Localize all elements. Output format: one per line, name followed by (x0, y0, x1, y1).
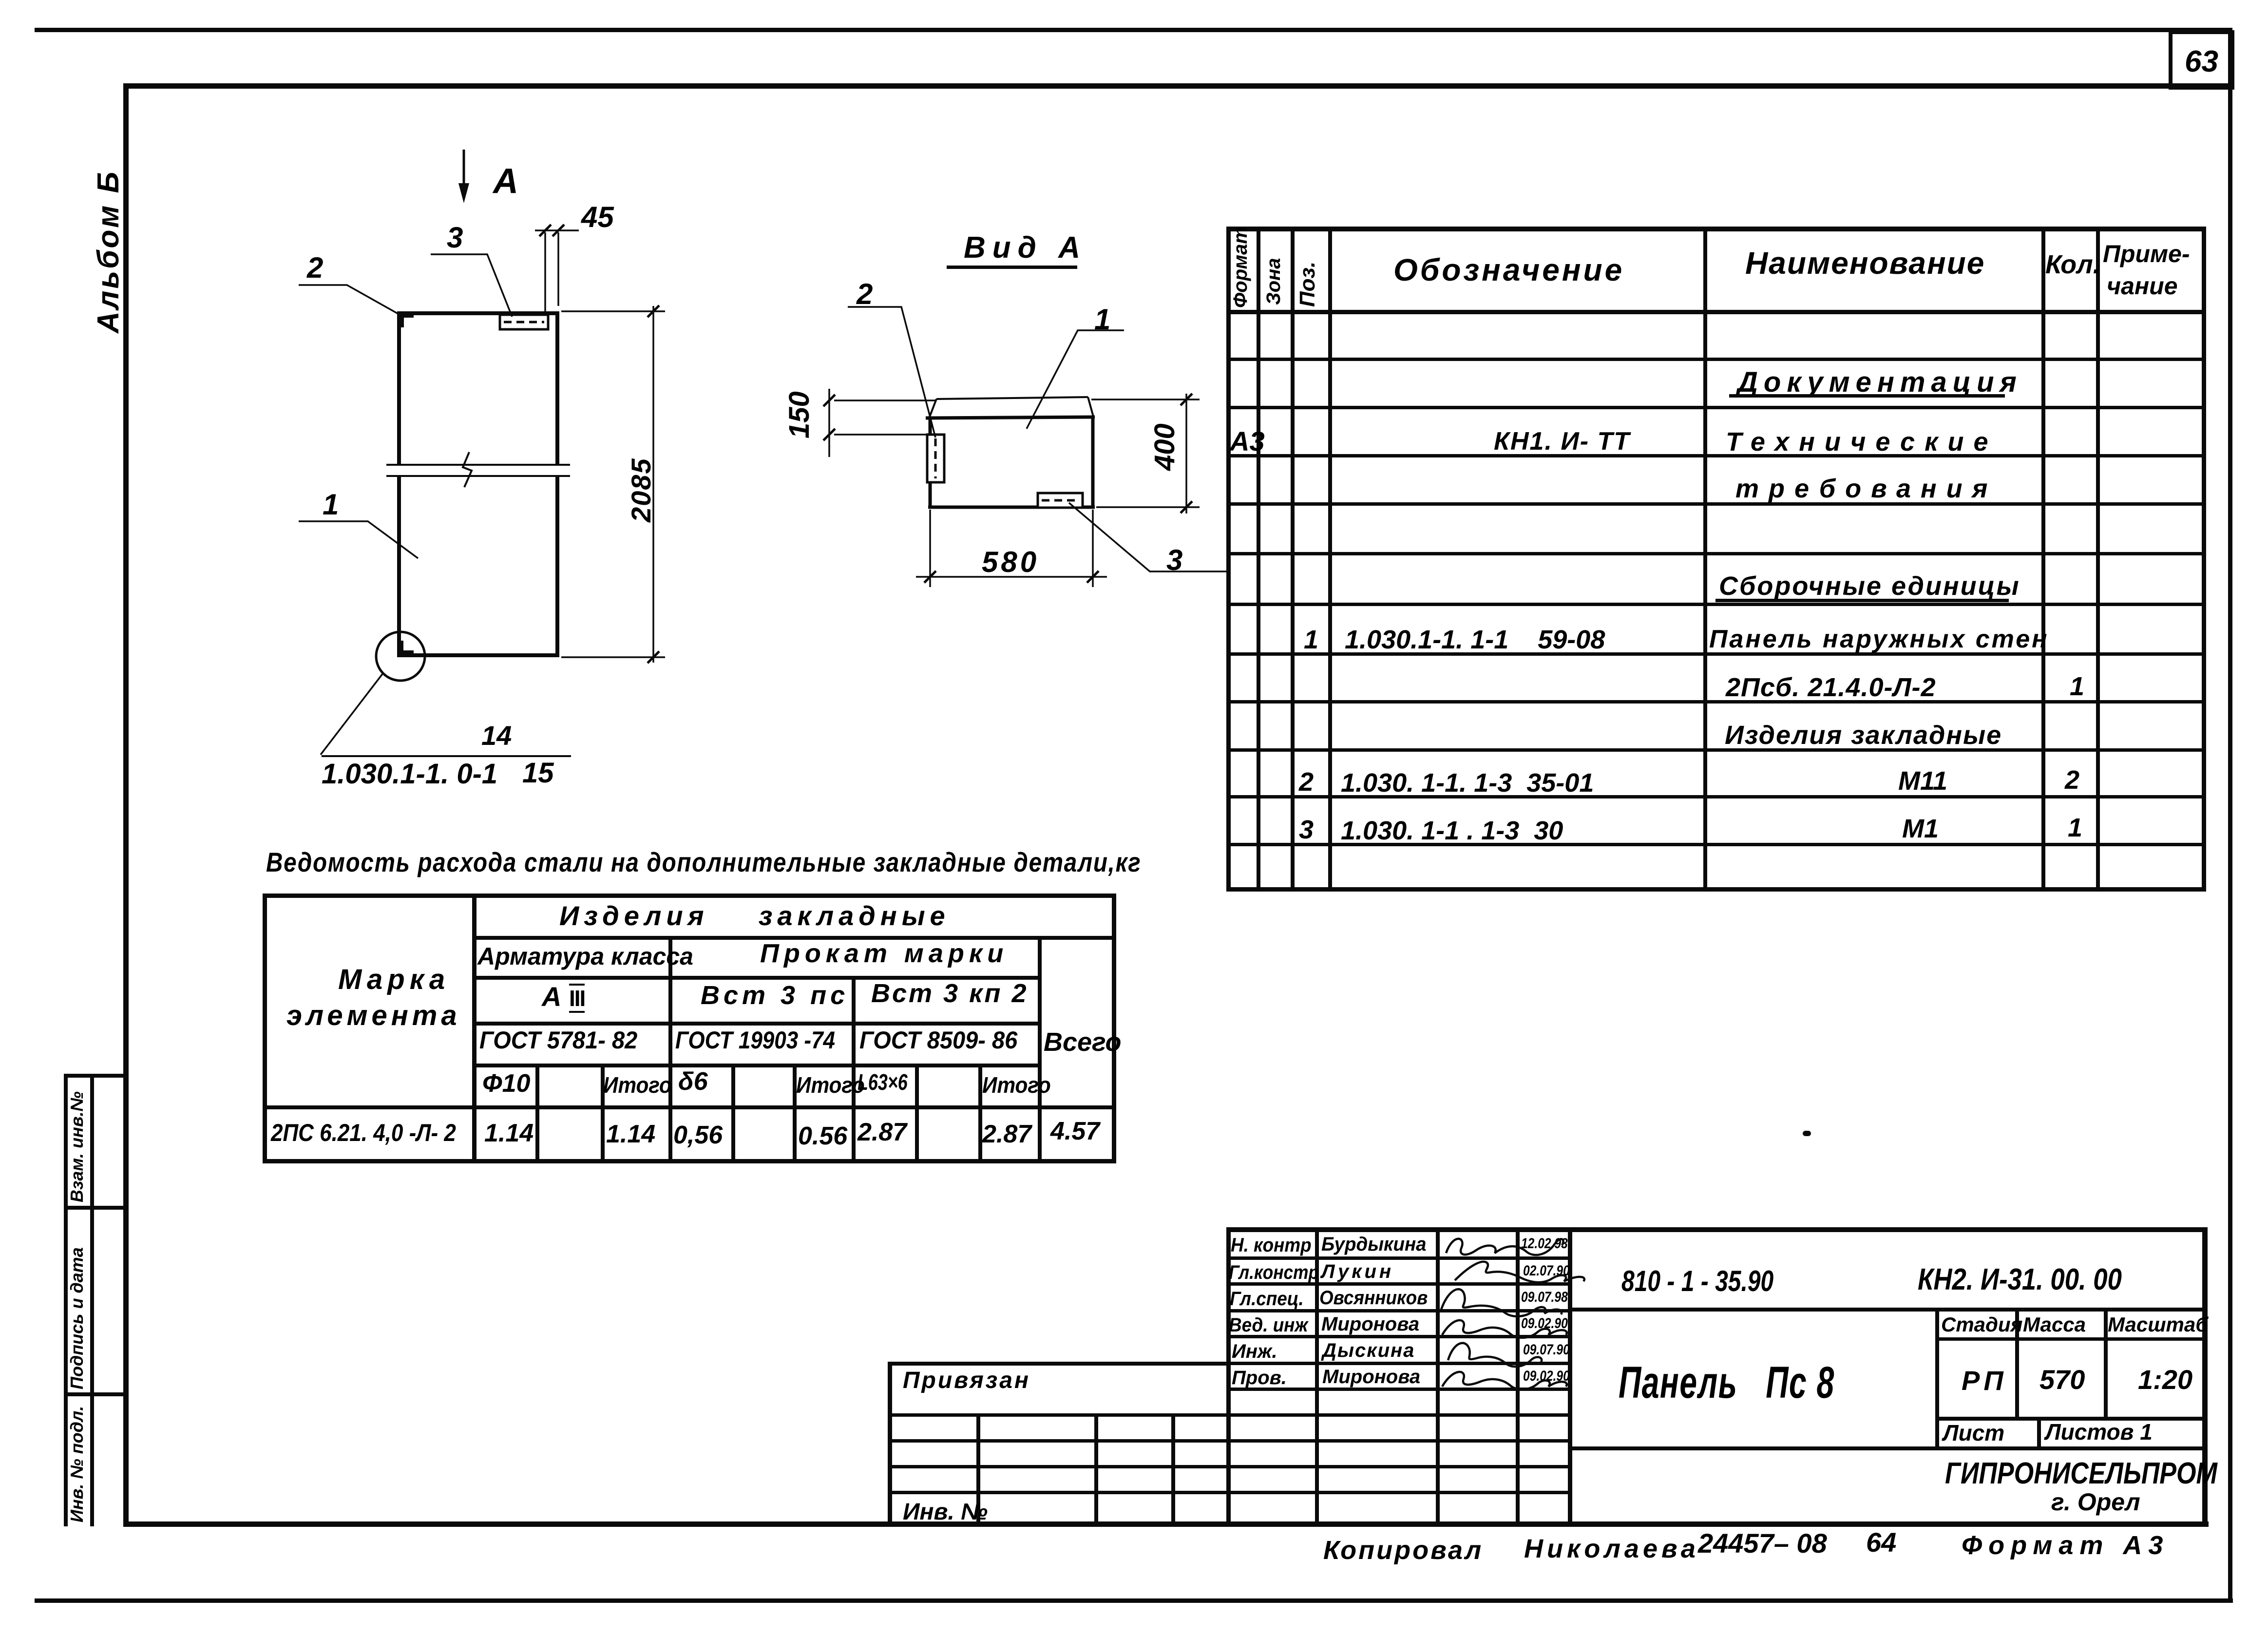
attachment block top line (888, 1362, 1227, 1365)
title block lower row line a (888, 1414, 1570, 1416)
spec table right border (2202, 227, 2206, 891)
title block vertical Масса/Масштаб (2104, 1308, 2107, 1420)
steel table subcolumn ВСт3пс Итого left (793, 1064, 796, 1163)
spec table left border (1227, 227, 1230, 891)
steel header Изделия закладные (559, 902, 950, 930)
callout number 3 (front view) (447, 223, 463, 252)
view A: bottom edge (928, 506, 1095, 509)
title block top border (1227, 1228, 2206, 1232)
spec table row line 11 (1227, 843, 2206, 846)
spec header Наименование (1745, 247, 1985, 279)
corner embed bottom-left (detail location) (397, 641, 414, 657)
underline of Документация (1730, 395, 2004, 397)
view A embed plate item 3 (1038, 493, 1083, 508)
dimension 2085: tick marks (648, 305, 659, 663)
panel front view: right edge (with break gap) (555, 311, 559, 657)
steel header ГОСТ 8509-86 (859, 1028, 1017, 1052)
steel header ВСт3кп2 (871, 980, 1028, 1007)
spec row Панель наружных стен (1709, 627, 2049, 652)
spec row 1.030.1-1. 1-1 59-08 (1345, 627, 1605, 653)
spec row требования (1735, 475, 1997, 502)
left strip top line (64, 1074, 128, 1077)
attachment block vertical 2 (1095, 1414, 1098, 1526)
title block divider under document numbers (1570, 1308, 2206, 1311)
signature name Лукин (1321, 1262, 1394, 1281)
spec row М1 (1902, 816, 1939, 842)
steel table subcolumn А3 Итого left (601, 1064, 604, 1163)
signature date 09.02.90 row6 (1523, 1369, 1570, 1384)
signature table row line 6 (1227, 1388, 1570, 1390)
callout 2 leader (front view) (299, 285, 398, 314)
steel table column Арматура/Прокат (669, 936, 672, 1163)
title block vertical Стадия/Масса (2016, 1308, 2019, 1420)
steel data Марка 2ПС6.21.4,0-Л-2 (271, 1121, 456, 1145)
callout number 1 (view A) (1094, 305, 1110, 334)
signature date 09.07.90 (1521, 1290, 1568, 1305)
spec row М11 (1898, 768, 1947, 794)
spec table top border (1227, 227, 2206, 231)
steel table column ВСт3пс/ВСт3кп2 (852, 976, 855, 1163)
view A: back top edge (936, 397, 1088, 399)
signature table row line 2 (1227, 1283, 1570, 1285)
dimension 580: tick marks (924, 571, 1099, 583)
spec row 1.030.1-1.1-3 35-01 (1341, 770, 1594, 796)
dimension text 2085 (rotated) (628, 457, 655, 522)
spec table row line 6 (1227, 603, 2206, 606)
signature table row line 4 (1227, 1335, 1570, 1338)
spec table row line 1 (1227, 358, 2206, 361)
steel table line below Арматура/Прокат (474, 976, 1040, 979)
steel header ГОСТ 19903-74 (675, 1028, 835, 1052)
signature table column sign/date (1516, 1228, 1519, 1526)
underline of Сборочные единицы (1716, 599, 2008, 602)
dimension 150: extension line (828, 389, 830, 457)
steel subheader Итого (ВСт3кп2) (982, 1074, 1051, 1096)
steel header Марка элемента line 2 (286, 1002, 461, 1030)
view A title (964, 233, 1087, 263)
steel subheader Итого (ВСт3пс) (796, 1074, 865, 1096)
spec table row line 9 (1227, 749, 2206, 751)
callout 2 leader (view A) (848, 307, 935, 437)
view A title underline (947, 266, 1077, 268)
view A: left bevel (929, 399, 936, 418)
footer Николаева (1524, 1536, 1699, 1562)
signature table column name/sign (1436, 1228, 1439, 1526)
signature date 12.02.93 (1521, 1236, 1568, 1251)
steel table column Марка/Изделия (473, 894, 476, 1163)
footer Копировал (1323, 1537, 1483, 1563)
header Лист (1943, 1422, 2004, 1444)
dimension 150: reference lines (834, 400, 936, 435)
spec table column line Кол/Примечание (2096, 227, 2099, 891)
header Стадия (1941, 1314, 2022, 1335)
signature name Дыскина (1322, 1341, 1415, 1360)
view A: left edge (929, 418, 932, 508)
value 1:20 (2138, 1366, 2192, 1393)
spec row Изделия закладные (1725, 722, 2002, 748)
callout number 2 (front view) (307, 253, 323, 283)
frame left border (124, 84, 128, 1526)
dimension 400: tick marks (1181, 394, 1192, 513)
dimension text 150 (rotated) (785, 391, 814, 438)
signature date 09.02.90 (1521, 1316, 1568, 1331)
signature role Инж. (1232, 1342, 1277, 1361)
signature scribble row 6 (1442, 1372, 1567, 1389)
title block stadia header underline (1937, 1338, 2206, 1340)
steel header Прокат марки (760, 940, 1008, 967)
callout 3 leader (front view) (431, 254, 512, 317)
bottom edge line of scanned sheet (35, 1599, 2232, 1602)
frame top border (126, 84, 2231, 88)
spec table row line 4 (1227, 503, 2206, 505)
dimension text 45 (581, 203, 614, 232)
frame bottom border (124, 1522, 2208, 1526)
spec row 1.030.1-1. 1-3 30 (1341, 817, 1563, 844)
spec header Приме- (2103, 242, 2190, 266)
steel table bottom (263, 1160, 1115, 1163)
dimension 580: dimension line (916, 576, 1107, 578)
title block lower row line c (888, 1465, 1570, 1468)
detail label 1.030.1-1. 0-1 (322, 760, 497, 788)
steel table line below marks row (474, 1022, 1040, 1025)
dimension text 14 above detail label (481, 722, 512, 749)
callout number 3 (view A) (1166, 546, 1182, 575)
spec table column line Поз/Обозначение (1329, 227, 1332, 891)
value РП (1962, 1367, 2007, 1394)
view A: right edge (1091, 417, 1095, 508)
left strip divider 2 (64, 1393, 128, 1396)
dimension 45: tick marks (539, 225, 564, 236)
spec row 2Псб.21.4.0-Л-2 (1726, 674, 1936, 701)
callout number 1 (front view) (323, 490, 339, 519)
steel data 0,56 (673, 1122, 723, 1148)
title block lower row line b (888, 1440, 1570, 1442)
steel data 2.87 (858, 1120, 907, 1145)
left strip inner vertical (91, 1074, 94, 1526)
view A: front top edge (926, 417, 1095, 418)
stray scan speck (1803, 1131, 1811, 1136)
callout number 2 (view A) (857, 280, 873, 309)
dimension 150: tick marks (823, 395, 835, 440)
steel table left border (263, 894, 267, 1163)
title block line under РП row (1937, 1417, 2206, 1420)
spec table row line 10 (1227, 796, 2206, 798)
left strip divider 1 (64, 1206, 128, 1209)
steel subheader L63x6 (858, 1071, 908, 1093)
steel data 2.87 (итого) (982, 1122, 1031, 1147)
org city г. Орел (2051, 1490, 2140, 1514)
steel table title (266, 849, 1142, 876)
steel table outer top (263, 894, 1115, 897)
spec row poz 3 (1299, 817, 1314, 843)
spec row qty 1 (М1) (2068, 815, 2082, 841)
panel front view: top edge (397, 311, 559, 315)
signature role Гл.констр (1229, 1263, 1319, 1282)
spec table column line Формат/Зона (1257, 227, 1260, 891)
left strip label Взам. инв. № (68, 1091, 86, 1202)
title block right border (2203, 1228, 2207, 1526)
signature table row line 3 (1227, 1310, 1570, 1312)
attachment label Привязан (903, 1369, 1030, 1392)
detail label 15 (522, 759, 554, 787)
signature role Пров. (1232, 1368, 1287, 1388)
spec header Кол. (2045, 251, 2100, 278)
steel header Арматура класса (477, 944, 693, 969)
dimension 580: extension lines (930, 510, 1093, 587)
left strip label Инв. № подл. (68, 1406, 86, 1522)
signature table right border (1568, 1228, 1572, 1526)
spec table column line Наименование/Кол (2042, 227, 2045, 891)
view arrow letter А (493, 164, 518, 199)
signature role Вед.инж (1229, 1315, 1308, 1335)
header Масса (2023, 1314, 2086, 1335)
break line upper (386, 464, 570, 466)
title block line under Панель cell (1570, 1447, 2206, 1450)
spec table row line 8 (1227, 701, 2206, 703)
spec row poz 2 (1299, 769, 1314, 795)
spec table column line Обозначение/Наименование (1704, 227, 1707, 891)
spec table column line Зона/Поз (1291, 227, 1294, 891)
album label Альбом Б (94, 170, 124, 333)
spec header Формат (rotated) (1231, 227, 1250, 308)
title block vertical Стадия left (1936, 1308, 1939, 1450)
view A: right bevel (1088, 397, 1093, 417)
steel header ВСт3пс (701, 982, 849, 1008)
doc number КН2.И-31.00.00 (1918, 1265, 2122, 1295)
steel table column Всего left (1038, 936, 1041, 1163)
steel data 0.56 (итого) (798, 1123, 847, 1149)
attachment block vertical 1 (977, 1414, 980, 1526)
spec row А3 (1230, 428, 1265, 455)
spec row Технические (1726, 429, 1998, 455)
detail leader line (321, 673, 383, 755)
steel header А III (542, 983, 585, 1010)
spec row poz 1 (1304, 627, 1318, 653)
steel table line below ГОСТ row (474, 1064, 1040, 1067)
spec table row line 5 (1227, 552, 2206, 555)
spec table row line 7 (1227, 653, 2206, 655)
signature scribble row 1 (1446, 1239, 1563, 1255)
spec table bottom border (1227, 888, 2206, 891)
dimension 2085: extension lines (561, 311, 665, 657)
steel table right border (1112, 894, 1116, 1163)
steel subheader Итого (А3) (603, 1074, 672, 1096)
dimension text 400 (rotated) (1151, 423, 1179, 471)
spec row КН1.И-ТТ (1494, 429, 1630, 454)
spec table header bottom line (1227, 310, 2206, 314)
view direction arrow A (458, 150, 469, 203)
signature role Н.контр (1231, 1236, 1312, 1255)
break zigzag (463, 452, 472, 487)
attachment block left border (888, 1362, 892, 1526)
break line lower (386, 475, 570, 477)
footer 24457-08 (1698, 1530, 1827, 1557)
dimension text 580 (982, 548, 1039, 577)
signature table row line 1 (1227, 1257, 1570, 1259)
spec header Зона (rotated) (1264, 258, 1283, 305)
signature name Овсянников (1319, 1288, 1428, 1308)
signature scribble row 4 (1442, 1320, 1567, 1338)
spec header Обозначение (1393, 254, 1624, 285)
steel table line above data row (263, 1106, 1115, 1109)
signature name Миронова row6 (1322, 1367, 1420, 1387)
dimension 2085: dimension line (652, 306, 654, 663)
signature table row line 5 (1227, 1362, 1570, 1365)
left strip outer vertical (64, 1074, 67, 1526)
signature role Гл.спец. (1230, 1289, 1304, 1309)
org name ГИПРОНИСЕЛЬПРОМ (1945, 1459, 2217, 1489)
steel table line below Изделия header (474, 936, 1115, 939)
spec table row line 2 (1227, 406, 2206, 409)
dimension 45: dimension line (535, 229, 579, 231)
steel header ГОСТ 5781-82 (479, 1028, 637, 1052)
signature scribble row 5 (1448, 1343, 1542, 1367)
title block vertical Лист/Листов (2038, 1417, 2040, 1450)
steel data 1.14 (итого) (606, 1122, 655, 1147)
callout 3 leader (view A) (1069, 503, 1229, 571)
steel header Марка элемента line 1 (338, 966, 450, 994)
dimension 400: extension lines (1091, 399, 1200, 507)
header Листов 1 (2045, 1421, 2153, 1443)
signature date 09.07.90 row5 (1523, 1343, 1570, 1357)
panel front view: bottom edge (397, 653, 559, 657)
signature table column role/name (1315, 1228, 1318, 1526)
drawing title Панель Пс 8 (1619, 1360, 1835, 1405)
steel subheader Ф10 (482, 1071, 530, 1096)
steel table subcolumn Ф10 right (536, 1064, 539, 1163)
doc number 810-1-35.90 (1621, 1267, 1773, 1296)
steel table subcolumn δ6 right (732, 1064, 735, 1163)
spec header Поз. (rotated) (1297, 262, 1318, 307)
panel front view: left edge (with break gap) (397, 311, 401, 657)
callout 1 leader (view A) (1027, 330, 1124, 429)
dimension 400: dimension line (1185, 394, 1187, 513)
value 570 (2039, 1366, 2085, 1393)
footer 64 (1866, 1529, 1896, 1556)
steel data 4.57 (1050, 1119, 1100, 1144)
steel header Всего (1044, 1029, 1122, 1055)
page number box 63 (2169, 30, 2234, 90)
callout 1 leader (front view) (299, 521, 418, 558)
spec row qty 1 (2Псб) (2070, 673, 2084, 700)
signature date 02.07.90 (1523, 1264, 1570, 1278)
steel data 1.14 (Ф10) (484, 1121, 534, 1146)
steel table subcolumn ВСт3кп2 Итого left (979, 1064, 982, 1163)
spec row qty 2 (М11) (2065, 767, 2079, 793)
corner embed top-left (item 2 location) (397, 311, 414, 327)
spec row Документация (1737, 368, 2022, 397)
header Масштаб (2108, 1314, 2208, 1335)
top edge line of scanned sheet (35, 28, 2230, 32)
signature scribble row 3 (1441, 1289, 1562, 1316)
dimension 45: extension lines (545, 232, 558, 312)
right edge line of scanned sheet (2229, 28, 2232, 1602)
steel subheader δ6 (678, 1069, 708, 1094)
detail label line (322, 755, 571, 757)
spec table row line 3 (1227, 455, 2206, 457)
signature name Миронова (1321, 1314, 1419, 1334)
detail circle at bottom-left corner (376, 632, 425, 681)
spec header чание (2107, 274, 2178, 298)
steel table subcolumn L63 right (915, 1064, 918, 1163)
signature scribble row 2 (1455, 1262, 1584, 1282)
attachment block vertical 3 (1172, 1414, 1175, 1526)
attachment label Инв. № (903, 1501, 988, 1524)
view A embed plate item 2 (927, 435, 944, 482)
footer Формат А3 (1962, 1532, 2169, 1559)
page number text 63 (2185, 47, 2218, 77)
title block lower row line d (888, 1491, 1570, 1494)
signature table left border (1227, 1228, 1230, 1526)
left strip label Подпись и дата (68, 1247, 86, 1389)
signature name Бурдыкина (1321, 1235, 1427, 1254)
spec row Сборочные единицы (1719, 573, 2020, 599)
embed plate item 3 in top edge (500, 315, 548, 329)
